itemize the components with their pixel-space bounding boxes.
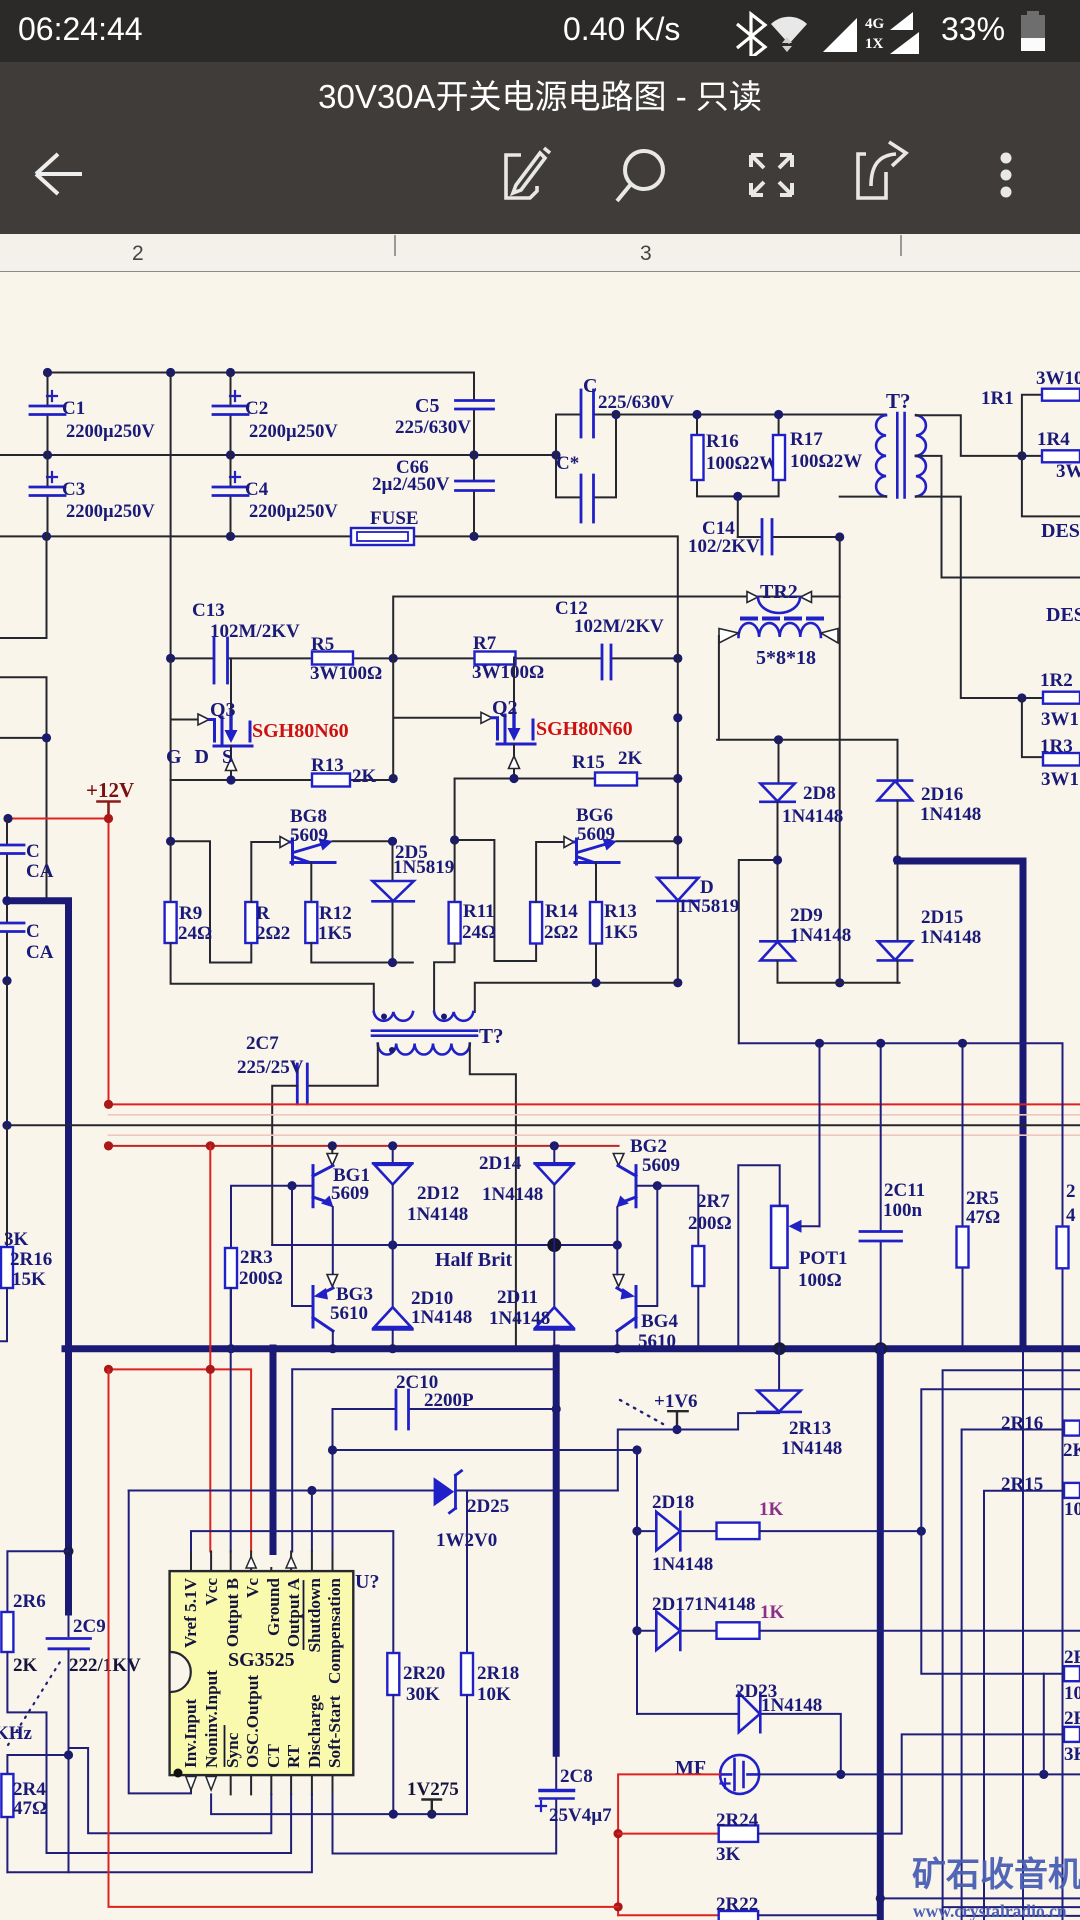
svg-text:POT1: POT1 xyxy=(799,1248,848,1269)
svg-text:CA: CA xyxy=(26,942,54,963)
wire xyxy=(47,373,49,537)
fuse FUSE xyxy=(351,528,414,545)
svg-text:3W100Ω: 3W100Ω xyxy=(472,662,544,683)
svg-text:2: 2 xyxy=(1066,1181,1076,1202)
svg-text:2D9: 2D9 xyxy=(790,905,823,926)
svg-text:BG8: BG8 xyxy=(290,806,327,827)
svg-text:Half Brit: Half Brit xyxy=(435,1249,513,1271)
node xyxy=(835,978,844,987)
svg-text:2R: 2R xyxy=(1064,1647,1080,1668)
diode 2D25 zener 1W2V0 xyxy=(129,1490,618,1492)
svg-text:1N4148: 1N4148 xyxy=(761,1695,822,1716)
svg-text:225/630V: 225/630V xyxy=(395,417,471,438)
svg-text:1N4148: 1N4148 xyxy=(782,806,843,827)
svg-text:47Ω: 47Ω xyxy=(966,1207,1000,1228)
svg-text:TR2: TR2 xyxy=(760,581,798,603)
svg-text:5609: 5609 xyxy=(577,824,615,845)
svg-text:3W10: 3W10 xyxy=(1036,368,1080,389)
svg-text:1K5: 1K5 xyxy=(604,922,638,943)
node xyxy=(1017,451,1026,460)
svg-text:4: 4 xyxy=(1066,1205,1076,1226)
svg-text:1N4148: 1N4148 xyxy=(781,1438,842,1459)
svg-text:1N4148: 1N4148 xyxy=(407,1204,468,1225)
svg-text:2µ2/450V: 2µ2/450V xyxy=(372,474,450,495)
wire xyxy=(616,415,886,538)
node xyxy=(835,532,844,541)
IC top pin stubs xyxy=(191,1552,333,1572)
power +12V xyxy=(86,778,134,819)
wire distribution 1042 xyxy=(739,1043,1063,1345)
diode D 1N5819 xyxy=(657,878,698,901)
transistor BG6 5609 xyxy=(564,837,678,903)
wire xyxy=(739,802,778,1043)
diode 2D10 1N4148 xyxy=(373,1307,412,1329)
svg-text:1X: 1X xyxy=(865,36,884,52)
wire R9 bottom rail xyxy=(171,943,374,1012)
resistor R14 xyxy=(530,902,542,944)
svg-text:1N4148: 1N4148 xyxy=(489,1308,550,1329)
wire bottom-right rails xyxy=(880,1898,1080,1916)
wire xyxy=(171,780,252,963)
svg-text:+12V: +12V xyxy=(86,778,134,802)
svg-text:BG3: BG3 xyxy=(336,1284,373,1305)
capacitor C CA lower xyxy=(6,901,8,981)
svg-text:1R3: 1R3 xyxy=(1040,736,1073,757)
svg-text:Output A: Output A xyxy=(284,1577,303,1647)
svg-text:BG2: BG2 xyxy=(630,1136,667,1157)
svg-text:www.crystalradio.cn: www.crystalradio.cn xyxy=(913,1901,1067,1920)
wire MF output xyxy=(759,1773,1080,1775)
svg-text:225/630V: 225/630V xyxy=(598,392,674,413)
capacitor C5 xyxy=(456,401,494,410)
svg-text:R16: R16 xyxy=(706,431,739,452)
transformer TR2 xyxy=(393,592,840,644)
svg-text:Soft-Start: Soft-Start xyxy=(325,1695,344,1768)
resistor R13b 1K5 xyxy=(590,902,602,944)
wire column x1043 xyxy=(1043,1674,1045,1775)
node xyxy=(166,654,175,663)
wire xyxy=(897,801,899,942)
wire thick ground drops xyxy=(69,1348,881,1920)
svg-text:2C8: 2C8 xyxy=(560,1766,593,1787)
IC bottom pin stubs xyxy=(231,1775,333,1794)
resistor 1R4 xyxy=(1042,450,1080,462)
resistor R9 xyxy=(170,841,172,902)
svg-text:2D15: 2D15 xyxy=(921,907,963,928)
svg-text:2C9: 2C9 xyxy=(73,1616,106,1637)
svg-text:2D171N4148: 2D171N4148 xyxy=(652,1594,755,1615)
wire right column x942 xyxy=(943,1370,1080,1920)
wire black feedback rail xyxy=(7,1124,1080,1126)
svg-text:2K: 2K xyxy=(1063,1440,1080,1461)
wire xyxy=(778,961,900,983)
svg-text:2200µ250V: 2200µ250V xyxy=(249,422,338,442)
svg-text:5609: 5609 xyxy=(642,1155,680,1176)
svg-text:+1V6: +1V6 xyxy=(654,1391,698,1412)
wire red bottom xyxy=(109,1369,619,1907)
capacitor C4 xyxy=(213,472,248,496)
resistor 2R6 2K xyxy=(7,1551,68,1612)
svg-text:102/2KV: 102/2KV xyxy=(688,536,760,557)
wire bridge top xyxy=(717,740,897,784)
svg-text:C: C xyxy=(26,841,40,862)
diode 2D17 1N4148 xyxy=(637,1630,717,1632)
svg-text:T?: T? xyxy=(479,1024,504,1048)
battery icon xyxy=(1018,8,1052,56)
svg-text:5610: 5610 xyxy=(330,1303,368,1324)
svg-text:102M/2KV: 102M/2KV xyxy=(574,616,664,637)
svg-text:OSC.Output: OSC.Output xyxy=(243,1675,262,1768)
diode 2D11 1N4148 xyxy=(535,1307,574,1329)
wire dark red 12V rail xyxy=(109,1145,619,1147)
svg-text:2R4: 2R4 xyxy=(13,1779,46,1800)
svg-text:10: 10 xyxy=(1064,1683,1080,1704)
wire xyxy=(636,1450,638,1714)
wire top rail xyxy=(45,373,474,401)
svg-text:2R24: 2R24 xyxy=(716,1810,759,1831)
wire column x1023 below bus xyxy=(1022,1352,1024,1920)
svg-text:2R16: 2R16 xyxy=(10,1249,52,1270)
svg-text:2R5: 2R5 xyxy=(966,1188,999,1209)
svg-text:1N4148: 1N4148 xyxy=(482,1184,543,1205)
svg-text:4G: 4G xyxy=(865,16,885,32)
svg-text:3W100Ω: 3W100Ω xyxy=(310,663,382,684)
svg-text:R13: R13 xyxy=(311,755,344,776)
transformer T? main xyxy=(876,413,926,498)
resistor 1R3 xyxy=(1043,753,1080,766)
svg-text:2D11: 2D11 xyxy=(497,1287,538,1308)
diode 2D12 1N4148 xyxy=(392,1146,394,1163)
resistor R7 xyxy=(475,652,516,665)
resistor 2R15 10K right xyxy=(984,1491,1064,1920)
svg-text:Discharge: Discharge xyxy=(305,1694,324,1768)
capacitor C* lower xyxy=(581,475,594,522)
capacitor C12 xyxy=(602,645,611,679)
svg-text:2D12: 2D12 xyxy=(417,1183,459,1204)
svg-text:DESI: DESI xyxy=(1046,604,1080,626)
svg-text:5609: 5609 xyxy=(331,1183,369,1204)
svg-text:1K: 1K xyxy=(760,1602,785,1623)
wire xyxy=(455,778,678,780)
resistor 1K second xyxy=(717,1622,760,1639)
resistor 1K xyxy=(717,1523,760,1540)
node xyxy=(692,410,701,419)
svg-text:R: R xyxy=(256,903,270,924)
node xyxy=(509,774,518,783)
svg-text:222/1KV: 222/1KV xyxy=(69,1655,141,1676)
svg-text:G D S: G D S xyxy=(166,746,237,768)
svg-text:R12: R12 xyxy=(319,903,352,924)
svg-text:2D10: 2D10 xyxy=(411,1288,453,1309)
svg-text:C2: C2 xyxy=(245,398,268,419)
wire xyxy=(840,415,1080,698)
svg-text:15K: 15K xyxy=(12,1269,46,1290)
svg-text:2200µ250V: 2200µ250V xyxy=(66,422,155,442)
resistor 2R24 3K xyxy=(618,1833,719,1835)
wire red MF left xyxy=(618,1774,720,1915)
svg-text:Vcc: Vcc xyxy=(202,1578,221,1606)
pin arrow Inv xyxy=(186,1777,196,1791)
svg-text:CT: CT xyxy=(264,1744,283,1768)
diode 2D8 1N4148 xyxy=(778,740,780,784)
svg-text:C4: C4 xyxy=(245,479,269,500)
diode 2D23 1N4148 xyxy=(637,1714,841,1775)
wire SoftStart trace xyxy=(333,1794,557,1853)
svg-text:R7: R7 xyxy=(473,633,497,654)
wire Discharge trace xyxy=(7,1794,312,1872)
svg-text:3K: 3K xyxy=(4,1229,29,1250)
transformer T? gate-drive xyxy=(372,1012,477,1055)
node xyxy=(42,532,51,541)
resistor 2R5 47ohm xyxy=(957,1227,969,1268)
svg-text:R9: R9 xyxy=(179,903,202,924)
wire xyxy=(556,415,616,498)
share icon xyxy=(858,142,906,198)
wire xyxy=(760,1530,922,1532)
search icon xyxy=(617,151,663,201)
transistor BG4 5610 xyxy=(613,1245,636,1346)
svg-text:2R7: 2R7 xyxy=(697,1191,730,1212)
wire thick ground bus left xyxy=(7,901,1080,1349)
svg-text:24Ω: 24Ω xyxy=(462,922,496,943)
transistor BG3 5610 xyxy=(313,1275,338,1346)
svg-text:1R1: 1R1 xyxy=(981,388,1014,409)
signal triangle 1 xyxy=(823,18,857,52)
status bar xyxy=(0,0,1080,62)
svg-text:BG4: BG4 xyxy=(641,1311,678,1332)
svg-text:MF: MF xyxy=(675,1757,706,1779)
svg-text:RT: RT xyxy=(284,1744,303,1768)
capacitor C14 xyxy=(762,520,772,555)
svg-text:2K: 2K xyxy=(352,766,377,787)
svg-text:1K5: 1K5 xyxy=(318,923,352,944)
wire red to Vcc pin xyxy=(109,1146,252,1552)
node xyxy=(2,896,11,905)
microphone MF xyxy=(720,1755,759,1794)
resistor 2R18 10K xyxy=(466,1491,468,1654)
svg-text:C: C xyxy=(583,375,597,397)
svg-text:矿石收音机: 矿石收音机 xyxy=(912,1856,1080,1894)
node xyxy=(43,450,52,459)
svg-text:5*8*18: 5*8*18 xyxy=(756,647,816,669)
resistor 2R20 30K xyxy=(191,1531,393,1653)
capacitor C3 xyxy=(30,472,65,496)
wire thick to right xyxy=(898,861,1024,1345)
svg-text:R11: R11 xyxy=(463,901,495,922)
svg-text:2Ω2: 2Ω2 xyxy=(544,922,578,943)
svg-text:2Ω2: 2Ω2 xyxy=(256,923,290,944)
svg-text:2200µ250V: 2200µ250V xyxy=(249,502,338,522)
svg-text:2R3: 2R3 xyxy=(240,1247,273,1268)
svg-text:1N4148: 1N4148 xyxy=(652,1554,713,1575)
resistor R 2ohm2 xyxy=(245,902,257,943)
svg-text:1N5819: 1N5819 xyxy=(393,857,454,878)
svg-text:3W: 3W xyxy=(1056,461,1080,482)
fullscreen icon xyxy=(751,155,792,195)
capacitor C1 xyxy=(30,391,65,415)
wire red +12V rail xyxy=(8,819,109,1105)
diode 2D9 1N4148 xyxy=(760,941,794,960)
wire right column x921 xyxy=(921,1389,1080,1674)
svg-text:R15: R15 xyxy=(572,752,605,773)
capacitor 2C10 2200P xyxy=(333,1409,557,1450)
transistor BG8 5609 xyxy=(280,837,393,903)
transistor BG2 5609 xyxy=(613,1154,662,1250)
svg-text:2R13: 2R13 xyxy=(789,1418,831,1439)
svg-text:R17: R17 xyxy=(790,429,823,450)
wire xyxy=(677,597,679,983)
svg-text:1N4148: 1N4148 xyxy=(920,927,981,948)
wire xyxy=(473,409,475,536)
overflow menu icon xyxy=(1001,153,1012,198)
svg-text:2R: 2R xyxy=(1064,1708,1080,1729)
wire BG2 base column xyxy=(637,1186,698,1306)
svg-text:2D25: 2D25 xyxy=(467,1496,509,1517)
svg-text:Q2: Q2 xyxy=(492,697,518,719)
resistor R5 xyxy=(312,652,353,665)
svg-text:BG6: BG6 xyxy=(576,805,613,826)
svg-text:47Ω: 47Ω xyxy=(13,1798,47,1819)
wire xyxy=(434,944,679,1013)
transistor BG1 5609 xyxy=(287,1146,337,1274)
capacitor 2C9 222/1KV xyxy=(68,1612,70,1636)
node xyxy=(226,775,235,784)
svg-text:C3: C3 xyxy=(62,479,85,500)
node xyxy=(166,837,175,846)
resistor 2R4 47ohm xyxy=(1,1774,13,1817)
resistor 1R1 xyxy=(1042,389,1080,401)
wifi icon xyxy=(771,17,807,44)
svg-text:3K: 3K xyxy=(716,1844,741,1865)
wire second rail xyxy=(0,454,556,456)
svg-text:100Ω2W: 100Ω2W xyxy=(706,453,778,474)
svg-text:KHz: KHz xyxy=(0,1723,33,1744)
resistor R13 xyxy=(312,774,350,787)
diode 2R13 1N4148 xyxy=(778,1348,780,1390)
wire left stubs xyxy=(0,536,47,900)
node xyxy=(773,855,782,864)
capacitor 2C7 xyxy=(297,1064,307,1104)
wire xyxy=(251,842,280,902)
resistor 2R 3K right-low xyxy=(1064,1727,1080,1742)
svg-text:D: D xyxy=(700,877,714,898)
svg-text:1R4: 1R4 xyxy=(1037,429,1070,450)
svg-text:3W1: 3W1 xyxy=(1041,709,1079,730)
svg-text:2R20: 2R20 xyxy=(403,1663,445,1684)
svg-text:10: 10 xyxy=(1064,1499,1080,1520)
svg-text:1N5819: 1N5819 xyxy=(678,896,739,917)
svg-text:Compensation: Compensation xyxy=(325,1578,344,1684)
diode 2D14 1N4148 xyxy=(553,1146,555,1163)
svg-text:200Ω: 200Ω xyxy=(688,1213,732,1234)
svg-text:R14: R14 xyxy=(545,901,578,922)
capacitor 2C8 25V4u7 xyxy=(555,1753,557,1789)
svg-text:100n: 100n xyxy=(883,1200,923,1221)
wire primary terminals xyxy=(307,1044,516,1346)
svg-text:225/25V: 225/25V xyxy=(237,1057,304,1078)
svg-text:10K: 10K xyxy=(477,1684,511,1705)
svg-text:5610: 5610 xyxy=(638,1331,676,1352)
svg-text:Ground: Ground xyxy=(264,1578,283,1636)
svg-text:30K: 30K xyxy=(406,1684,440,1705)
resistor 2R16 2K right xyxy=(962,1430,1064,1920)
node xyxy=(774,735,783,744)
wire xyxy=(171,779,394,781)
wire xyxy=(738,536,840,538)
wire comp node xyxy=(333,1450,638,1552)
wire xyxy=(455,779,536,962)
wire CT trace xyxy=(69,1748,272,1833)
toolbar xyxy=(0,114,1080,234)
capacitor 2C11 100n xyxy=(860,1232,902,1242)
svg-text:R5: R5 xyxy=(311,634,334,655)
svg-text:C: C xyxy=(26,921,40,942)
svg-text:100Ω2W: 100Ω2W xyxy=(790,451,862,472)
wire shutdown drop xyxy=(129,1491,312,1794)
svg-text:2K: 2K xyxy=(13,1655,38,1676)
svg-text:Output B: Output B xyxy=(223,1578,242,1647)
svg-text:2D16: 2D16 xyxy=(921,784,963,805)
pin arrow OutputA xyxy=(286,1557,296,1569)
svg-text:C*: C* xyxy=(556,453,579,474)
svg-text:2C7: 2C7 xyxy=(246,1033,279,1054)
svg-text:3K: 3K xyxy=(1064,1744,1080,1765)
svg-text:Shutdown: Shutdown xyxy=(305,1578,324,1653)
svg-text:Sync: Sync xyxy=(223,1732,242,1768)
resistor 2R3 200ohm xyxy=(231,1186,292,1248)
svg-text:1R2: 1R2 xyxy=(1040,670,1073,691)
resistor R15 xyxy=(595,773,637,786)
svg-text:Vref 5.1V: Vref 5.1V xyxy=(181,1577,200,1648)
wire C13 row xyxy=(171,373,678,659)
wire BG1 base column xyxy=(292,1186,312,1306)
pin arrow Vc xyxy=(246,1557,256,1569)
svg-text:FUSE: FUSE xyxy=(370,508,419,529)
node xyxy=(673,713,682,722)
back arrow icon xyxy=(36,154,82,194)
pin arrow Noninv xyxy=(206,1777,216,1791)
svg-text:CA: CA xyxy=(26,861,54,882)
svg-text:Noninv.Input: Noninv.Input xyxy=(202,1670,221,1768)
resistor 2R 10 right-mid xyxy=(1064,1666,1080,1681)
svg-text:2R6: 2R6 xyxy=(13,1591,46,1612)
svg-text:1V275: 1V275 xyxy=(407,1779,459,1800)
svg-text:2C11: 2C11 xyxy=(884,1180,925,1201)
node xyxy=(611,410,620,419)
potentiometer POT1 100ohm xyxy=(771,1206,787,1268)
wire Q2 gate xyxy=(393,658,481,778)
svg-text:SG3525: SG3525 xyxy=(228,1649,295,1671)
node xyxy=(43,368,52,377)
svg-text:1N4148: 1N4148 xyxy=(411,1307,472,1328)
diode 2D5 1N5819 xyxy=(392,841,394,881)
wire xyxy=(1022,395,1080,757)
wire xyxy=(760,1630,1080,1632)
resistor R11 xyxy=(454,840,456,902)
svg-text:SGH80N60: SGH80N60 xyxy=(536,718,633,740)
bluetooth icon xyxy=(737,14,765,58)
node xyxy=(450,835,459,844)
svg-text:C13: C13 xyxy=(192,600,225,621)
edit icon xyxy=(506,148,550,198)
capacitor C CA upper xyxy=(6,819,8,901)
svg-text:T?: T? xyxy=(886,389,911,413)
wire xyxy=(230,373,232,537)
svg-text:2D14: 2D14 xyxy=(479,1153,522,1174)
diode 2D16 1N4148 xyxy=(878,781,912,801)
diode 2D15 1N4148 xyxy=(878,941,912,960)
op-amp U? SG3525 IC body xyxy=(170,1571,354,1775)
